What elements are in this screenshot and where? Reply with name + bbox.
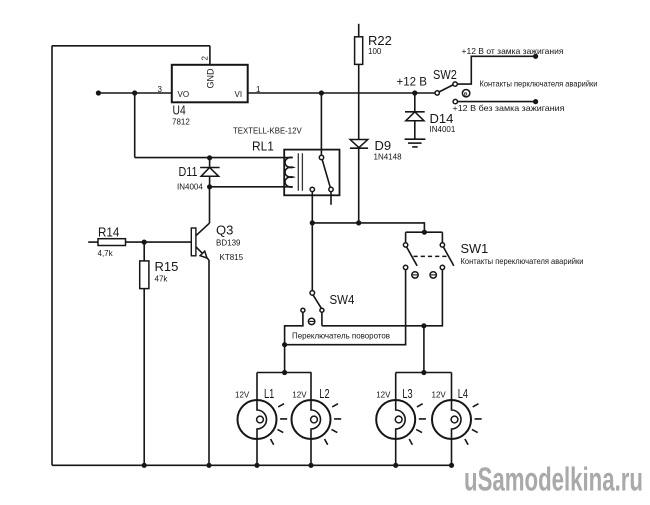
- svg-text:RL1: RL1: [252, 139, 274, 154]
- wire relay NO drop: [311, 192, 313, 223]
- wire top horizontal: [52, 45, 210, 47]
- wire base: [144, 241, 191, 243]
- diode D14: [405, 93, 425, 139]
- switch SW2 lever: [439, 85, 453, 92]
- svg-text:D11: D11: [179, 164, 198, 179]
- svg-text:SW4: SW4: [330, 292, 355, 307]
- junction node emitter bottom: [206, 463, 211, 468]
- svg-text:Контакты переключателя аварийк: Контакты переключателя аварийки: [461, 256, 584, 266]
- svg-text:100: 100: [368, 47, 382, 56]
- wire collector: [209, 187, 211, 224]
- svg-text:VI: VI: [235, 90, 243, 99]
- junction node left hazard join: [282, 342, 287, 347]
- wire right lamps feed: [423, 326, 425, 373]
- junction node L1 bottom: [254, 463, 259, 468]
- svg-text:4,7k: 4,7k: [98, 249, 114, 258]
- switch SW2 pole: [435, 91, 439, 95]
- switch SW2 throw upper: [453, 82, 457, 86]
- svg-text:D9: D9: [375, 138, 392, 153]
- svg-text:R15: R15: [155, 259, 179, 274]
- junction node right lamp bus: [421, 370, 426, 375]
- wire left rail: [51, 46, 53, 466]
- switch SW1 lever left: [407, 247, 418, 266]
- svg-text:L2: L2: [319, 386, 329, 401]
- wire SW4 right throw out: [321, 312, 323, 326]
- svg-text:SW2: SW2: [433, 67, 457, 82]
- svg-text:KT815: KT815: [220, 253, 244, 262]
- symbol direction right: [430, 272, 436, 278]
- node ignition terminal: [533, 54, 538, 59]
- wire relay common branch: [320, 93, 322, 155]
- wire SW4 common: [311, 223, 313, 291]
- wire coil top: [135, 157, 293, 159]
- junction node L3 bottom: [393, 463, 398, 468]
- wire VO to U4: [98, 92, 171, 94]
- svg-text:IN4004: IN4004: [177, 183, 203, 192]
- svg-text:U4: U4: [173, 103, 186, 118]
- svg-text:+12 В без замка зажигания: +12 В без замка зажигания: [453, 103, 565, 113]
- svg-text:7812: 7812: [172, 118, 190, 127]
- svg-text:L4: L4: [458, 386, 468, 401]
- svg-text:12V: 12V: [432, 391, 447, 400]
- junction node left lamps feed: [282, 370, 287, 375]
- junction node D11 bottom: [207, 184, 212, 189]
- wire coil branch vertical: [134, 93, 136, 158]
- junction node base: [142, 240, 147, 245]
- switch SW1 upper contact left: [403, 243, 407, 247]
- wire battery feed: [458, 101, 536, 103]
- wire SW4 left throw out: [285, 312, 303, 372]
- lamp L3: [376, 373, 426, 466]
- svg-text:12V: 12V: [235, 391, 250, 400]
- wire GND stub pin 2: [209, 46, 211, 65]
- resistor R22: [355, 24, 363, 140]
- symbol direction SW4: [308, 318, 314, 324]
- wire load bus: [312, 223, 424, 232]
- relay NO contact: [310, 187, 314, 191]
- svg-text:Контакты перключателя аварийки: Контакты перключателя аварийки: [480, 79, 598, 89]
- junction node coil branch: [132, 90, 137, 95]
- switch SW4 pole: [310, 291, 315, 296]
- svg-text:12V: 12V: [376, 391, 391, 400]
- svg-text:1N4148: 1N4148: [374, 153, 403, 162]
- voltage regulator U4: [172, 65, 248, 103]
- wire SW1 left drop: [405, 232, 407, 243]
- wire emitter: [208, 260, 210, 465]
- relay common contact: [319, 155, 323, 159]
- svg-text:BD139: BD139: [216, 239, 241, 248]
- diode D9: [350, 140, 368, 223]
- switch SW1 lever right: [443, 247, 453, 266]
- junction node relay NO bus: [310, 220, 315, 225]
- resistor R14: [88, 239, 144, 246]
- svg-text:SW1: SW1: [461, 241, 489, 256]
- switch SW4 throw right: [320, 308, 324, 312]
- svg-text:TEXTELL-KBE-12V: TEXTELL-KBE-12V: [233, 126, 302, 136]
- wire ignition feed: [457, 56, 535, 84]
- switch SW1 gang dashed link: [414, 255, 449, 257]
- svg-text:Переключатель поворотов: Переключатель поворотов: [292, 331, 390, 341]
- wire SW1 right drop: [441, 232, 443, 243]
- node VO terminal: [96, 90, 101, 95]
- lamp L1: [238, 373, 288, 466]
- symbol direction left: [412, 272, 418, 278]
- switch SW4 lever: [313, 295, 321, 308]
- switch SW1 lower contact right: [440, 265, 444, 269]
- switch SW1 lower contact left: [403, 265, 407, 269]
- svg-text:+12 В: +12 В: [397, 75, 428, 89]
- svg-text:L1: L1: [264, 386, 274, 401]
- lamp L2: [292, 373, 342, 466]
- svg-text:R22: R22: [368, 33, 392, 48]
- svg-text:в: в: [464, 92, 468, 98]
- symbol circled B: [462, 90, 469, 98]
- svg-text:12V: 12V: [292, 391, 307, 400]
- resistor R15: [140, 242, 149, 465]
- wire coil bottom: [210, 186, 293, 188]
- svg-text:GND: GND: [206, 68, 216, 89]
- wire bottom bus: [52, 464, 452, 466]
- relay NC contact: [329, 187, 333, 191]
- wire SW1 right out: [322, 270, 443, 326]
- svg-text:47k: 47k: [155, 275, 169, 284]
- lamp L4: [432, 373, 482, 466]
- switch SW2 throw lower: [453, 99, 457, 103]
- junction node R15 bottom: [142, 463, 147, 468]
- wire SW1 top T: [406, 231, 443, 233]
- diode D11: [200, 158, 220, 187]
- wire SW1 left out: [285, 270, 406, 345]
- relay RL1 box: [284, 150, 339, 196]
- junction node relay common: [319, 90, 324, 95]
- junction node right lamps branch: [421, 323, 426, 328]
- junction node D11 top: [207, 155, 212, 160]
- junction node L4 bottom: [449, 463, 454, 468]
- ground: [405, 139, 426, 147]
- switch SW1 upper contact right: [440, 243, 444, 247]
- svg-text:R14: R14: [98, 225, 119, 240]
- svg-text:IN4001: IN4001: [430, 125, 456, 134]
- svg-text:+12 В от замка зажигания: +12 В от замка зажигания: [462, 46, 564, 56]
- node battery terminal: [533, 99, 538, 104]
- relay core: [298, 153, 302, 191]
- svg-text:D14: D14: [430, 111, 454, 126]
- junction node SW1 top: [422, 230, 427, 235]
- relay lever: [322, 160, 330, 188]
- relay coil: [285, 157, 293, 187]
- junction node D14: [412, 90, 417, 95]
- svg-text:L3: L3: [402, 386, 412, 401]
- wire right lamp bus: [396, 372, 452, 374]
- wire left lamp bus: [257, 372, 312, 374]
- junction node D9 bottom: [356, 220, 361, 225]
- svg-text:VO: VO: [178, 90, 190, 99]
- transistor Q3: [191, 223, 209, 260]
- junction node L2 bottom: [308, 463, 313, 468]
- svg-text:Q3: Q3: [216, 223, 233, 238]
- switch SW4 throw left: [301, 308, 305, 312]
- wire +12 bus: [248, 92, 435, 94]
- svg-text:2: 2: [201, 56, 210, 61]
- svg-text:uSamodelkina.ru: uSamodelkina.ru: [464, 461, 643, 498]
- wire relay NC stub: [330, 192, 332, 205]
